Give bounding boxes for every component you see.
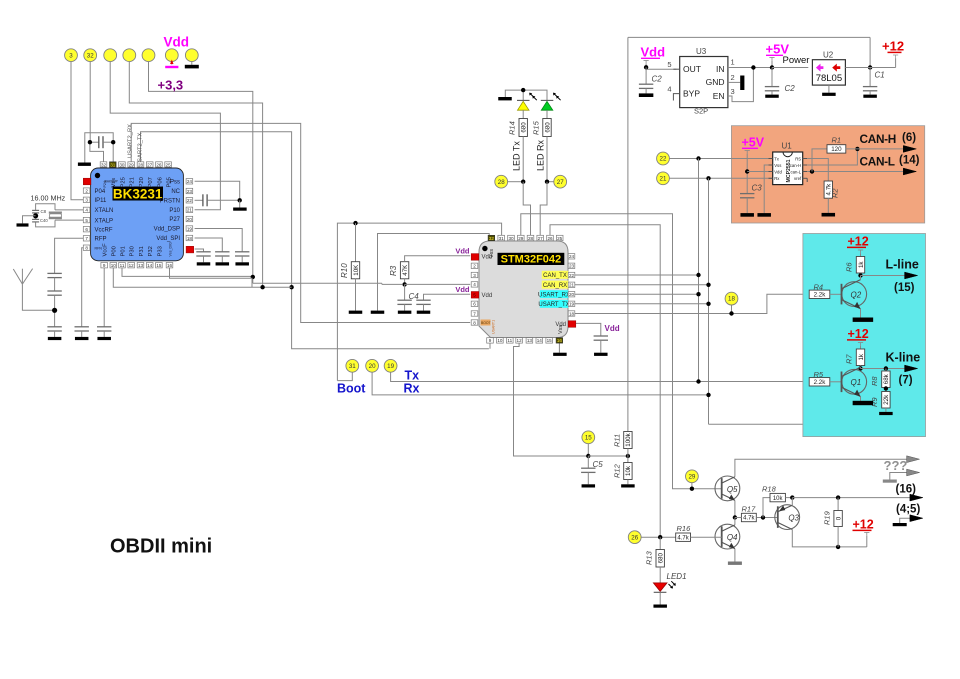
svg-text:C8: C8: [41, 209, 47, 214]
svg-text:C40: C40: [40, 218, 48, 223]
wire cap2 to junction: [54, 295, 56, 327]
STM pin 9 box (bottom): [487, 338, 494, 343]
STM pin 27 box (top): [537, 235, 544, 240]
svg-text:7: 7: [85, 236, 88, 241]
BK pin 12 box (bottom): [128, 263, 135, 268]
svg-text:K-line: K-line: [886, 351, 921, 365]
CAN-L arrow head: [903, 168, 916, 175]
LED Tx (yellow) symbol: [517, 99, 530, 101]
connector pin circle (unlabeled a): [104, 49, 117, 62]
L-line arrow wire: [861, 275, 905, 277]
svg-text:P31: P31: [139, 246, 145, 256]
wire BOOT0 net: Boot circle up and right to STM pin 31: [337, 223, 501, 381]
svg-text:C3: C3: [752, 184, 763, 193]
wire R1 to CAN-H arrow: [846, 148, 904, 150]
wire R5 to Q1 base: [830, 381, 842, 383]
svg-text:31: 31: [349, 363, 356, 370]
svg-text:(6): (6): [902, 132, 916, 144]
wire Rx circle to Rx rail: [372, 372, 708, 395]
wire STM pin21 CAN_RX to Rx net: [575, 284, 709, 286]
ground bar C5: [582, 484, 596, 487]
Rx net vertical (c21/CAN_RX/Rx/K-divider): [708, 178, 710, 424]
wire STM pin22 CAN_TX to Tx net: [575, 274, 699, 276]
svg-text:4: 4: [473, 282, 476, 287]
svg-text:100k: 100k: [625, 432, 632, 446]
connector circle 26: [628, 531, 641, 544]
junction dot R10 top: [353, 221, 357, 225]
svg-text:C5: C5: [593, 460, 604, 469]
svg-text:32: 32: [101, 162, 107, 167]
svg-text:2: 2: [731, 73, 735, 82]
wire STM pin26 to circle26 net (long): [550, 225, 660, 538]
svg-text:XTALP: XTALP: [95, 218, 114, 224]
wire: connector pin 32 down to crystal-loop left dot: [89, 62, 91, 143]
wire circle26 junction, R16: [641, 536, 676, 538]
svg-text:???: ???: [884, 458, 908, 473]
wire LED tops to ground: [505, 90, 547, 100]
svg-text:4.7k: 4.7k: [743, 516, 755, 522]
wire: connector circle 3 branch to BK P10 pin 21: [110, 62, 220, 210]
wire LED Tx to R14: [522, 110, 524, 118]
power flag +12 bottom: [864, 532, 869, 534]
ground bar LED block: [498, 97, 512, 100]
svg-text:P20: P20: [139, 177, 145, 187]
svg-text:10: 10: [111, 263, 117, 268]
U2 magenta arrow icon: [816, 64, 824, 72]
K-line arrow head: [905, 365, 918, 372]
??? arrow head (gray): [907, 456, 920, 463]
svg-text:19: 19: [569, 302, 575, 307]
svg-text:120: 120: [831, 146, 842, 153]
connector circle 29: [686, 470, 699, 483]
cap C1: [869, 68, 871, 87]
svg-text:680: 680: [544, 122, 551, 133]
svg-text:LED1: LED1: [667, 572, 687, 581]
wire LED1 to ground: [659, 592, 661, 604]
svg-text:Q3: Q3: [788, 514, 799, 523]
svg-text:BOOT: BOOT: [481, 321, 491, 325]
svg-text:4.7k: 4.7k: [677, 535, 689, 541]
STM pin 12 box (bottom): [516, 338, 523, 343]
svg-text:CAN-L: CAN-L: [860, 155, 895, 169]
crystal circuit loop: [36, 204, 55, 211]
BK pin 7 box: [83, 236, 90, 241]
transistor Q5: [715, 476, 740, 501]
connector circle 28: [495, 175, 508, 188]
svg-text:29: 29: [129, 162, 135, 167]
BK pin 24 box: [186, 179, 193, 184]
svg-text:P01: P01: [120, 246, 126, 256]
wire STM pin19 USART_TX to Rx vertical: [575, 303, 709, 305]
cap on PRSTN: [202, 194, 204, 206]
svg-text:29: 29: [518, 236, 524, 241]
ground bar antenna: [48, 337, 62, 340]
resistor R19 0: [837, 498, 839, 511]
cap BK pin8: [75, 326, 89, 328]
connector pin circle (unlabeled c): [142, 49, 155, 62]
svg-text:R10: R10: [340, 263, 349, 278]
BK3231 pin-1 indicator dot: [95, 173, 100, 178]
wire crystal cap junction to ground: [23, 216, 36, 224]
wire: Vss loop top over cap: [85, 133, 113, 163]
svg-text:32: 32: [87, 52, 94, 59]
svg-text:MCP2551: MCP2551: [786, 159, 792, 182]
svg-text:3: 3: [473, 273, 476, 278]
svg-text:CAN_RX: CAN_RX: [543, 283, 567, 289]
wire STM pin16 to ground: [558, 343, 560, 353]
svg-text:R3: R3: [389, 265, 398, 276]
BK pin 5 box: [83, 217, 90, 222]
svg-text:BYP: BYP: [683, 89, 700, 99]
cap C3: [740, 193, 754, 195]
wire Q2 emitter to ground: [860, 309, 862, 318]
svg-text:28: 28: [528, 236, 534, 241]
svg-text:R2: R2: [831, 188, 840, 198]
L-line arrow head: [905, 272, 918, 279]
STM pin 2 box: [471, 263, 478, 268]
U3 pin 3 EN loop to IN: [728, 68, 754, 102]
svg-text:10K: 10K: [353, 264, 360, 276]
svg-text:Vdd: Vdd: [482, 255, 493, 261]
STM pin 19 box: [568, 301, 575, 306]
svg-text:Rx: Rx: [774, 176, 780, 181]
connector pin circle (unlabeled b): [123, 49, 136, 62]
svg-text:P00: P00: [112, 246, 118, 256]
(16) arrow head: [910, 494, 923, 501]
svg-text:5: 5: [473, 292, 476, 297]
U2 78L05 box: [812, 60, 845, 85]
svg-text:26: 26: [631, 534, 638, 541]
ground bar STM pin16: [553, 353, 567, 356]
transistor Q2: [842, 282, 867, 307]
svg-text:S2P: S2P: [694, 107, 708, 116]
svg-text:22: 22: [660, 156, 667, 163]
wire R10 to ground: [355, 279, 357, 311]
wire: connector circle 5 down to NRST/P01 net: [149, 62, 253, 284]
wire c29 stem: [691, 483, 693, 489]
wire USART2_TX from BK pin 28 to STM pin 9 net: [141, 132, 489, 349]
wire IN line to U2: [772, 67, 808, 69]
svg-text:R14: R14: [508, 121, 517, 135]
wire BK pin10 (P00) net: [113, 268, 291, 287]
svg-text:+12: +12: [848, 327, 869, 341]
transistor Q3 (PNP): [775, 505, 800, 530]
BK pin 1 (red): [83, 178, 91, 185]
STM orange tag pin8: [481, 320, 491, 326]
svg-text:29: 29: [688, 473, 695, 480]
svg-text:13: 13: [138, 263, 144, 268]
wire U2 out to C1/+12 node: [845, 67, 895, 69]
gray ground bar ???: [883, 480, 897, 483]
ground bar BK pin9 cap: [97, 337, 111, 340]
svg-text:vref: vref: [794, 176, 802, 181]
svg-text:Q2: Q2: [851, 291, 862, 300]
ground bar STM VSS: [371, 311, 385, 314]
ground bar (4;5): [893, 523, 907, 526]
svg-text:2.2k: 2.2k: [814, 379, 827, 386]
STM pin 32 box (dark): [488, 235, 495, 240]
svg-text:24: 24: [187, 179, 193, 184]
ground bar C1: [863, 95, 877, 98]
svg-text:EN: EN: [713, 91, 725, 101]
STM pin 15 box (bottom): [546, 338, 553, 343]
BK pin 3 box: [83, 197, 90, 202]
ground bar cap18: [216, 262, 230, 265]
svg-text:Vdd_SPI: Vdd_SPI: [156, 236, 180, 242]
BK3231 chip body: [91, 168, 184, 261]
BK pin 2 box: [83, 188, 90, 193]
ground bar cap17: [197, 262, 211, 265]
BK pin 11 box (bottom): [119, 263, 126, 268]
power flag Vdd U3: [644, 60, 649, 62]
svg-text:U1: U1: [782, 142, 793, 151]
svg-text:30: 30: [508, 236, 514, 241]
ground bar pin5 cap: [417, 311, 431, 314]
svg-text:R5: R5: [814, 370, 824, 379]
svg-text:31: 31: [110, 162, 116, 167]
svg-text:Vss: Vss: [111, 178, 117, 188]
resistor R7 1k: [860, 346, 862, 349]
wire U1 can-L to CAN-L arrow: [807, 171, 904, 173]
svg-text:GND: GND: [706, 77, 725, 87]
wire junction to R11 node: [588, 455, 628, 457]
wire BK pin 8 to cap: [82, 248, 87, 327]
svg-text:15: 15: [156, 263, 162, 268]
wire circle22 to U1 Tx: [669, 158, 772, 160]
BK pin 27 box (top): [146, 162, 153, 167]
wire circle21 to U1 Rx: [669, 177, 772, 179]
wire cap3 to ground: [54, 331, 56, 337]
STM pin 4 box: [471, 282, 478, 287]
U3 pin 2 GND stub to bar: [728, 81, 740, 83]
junction dot EN/IN/+12 vert: [868, 65, 872, 69]
power flag below Vdd circle: [171, 62, 173, 65]
ground bar below last connector circle: [191, 62, 193, 65]
U3 pin 4 stub: [673, 94, 679, 101]
svg-text:OUT: OUT: [683, 64, 701, 74]
ground bar R10: [349, 311, 363, 314]
svg-text:15: 15: [547, 338, 553, 343]
wire: connector circle 4 down to P00 net: [129, 62, 262, 288]
wire BK pin 7 RFP to antenna cap chain: [55, 238, 87, 273]
wire Boot circle to BOOT0 vertical: [337, 372, 352, 380]
svg-text:8: 8: [85, 246, 88, 251]
svg-text:Rx: Rx: [404, 382, 420, 396]
BK pin 10 box (bottom): [110, 263, 117, 268]
svg-text:20: 20: [187, 217, 193, 222]
ground bar STM Vdd cap: [594, 353, 608, 356]
transistor Q4: [715, 524, 740, 549]
svg-text:6: 6: [473, 302, 476, 307]
svg-text:27: 27: [538, 236, 544, 241]
power flag +12 K: [858, 342, 863, 344]
svg-text:CAN-H: CAN-H: [860, 132, 897, 146]
svg-text:10: 10: [497, 338, 503, 343]
decoupling cap BK pin17: [196, 251, 210, 253]
wire Q5 emitter to R17 node: [734, 500, 736, 517]
resistor R5 2.2k: [809, 378, 830, 386]
svg-text:0: 0: [835, 516, 842, 520]
svg-text:1: 1: [731, 58, 735, 67]
svg-text:16: 16: [167, 263, 173, 268]
wire U1 can-H up to R1 right node: [807, 149, 857, 165]
ground bar BK pin8 cap: [75, 337, 89, 340]
svg-text:LED Rx: LED Rx: [535, 139, 545, 171]
svg-text:P32: P32: [148, 246, 154, 256]
svg-text:32: 32: [489, 236, 495, 241]
STM CAN_RX tag: [542, 281, 569, 289]
svg-text:+12: +12: [848, 235, 869, 249]
wire Q5 collector to ??? line: [735, 459, 908, 477]
svg-text:Vdd: Vdd: [164, 35, 190, 50]
svg-text:19: 19: [187, 226, 193, 231]
svg-text:21: 21: [569, 283, 575, 288]
resistor R8 68k: [885, 369, 887, 372]
svg-text:18: 18: [187, 236, 193, 241]
junction dot antenna: [52, 308, 57, 313]
wire Vdd flag to U3 OUT: [646, 64, 676, 69]
ground bar Q2 (thick): [853, 318, 874, 322]
STM pin 3 box: [471, 272, 478, 277]
STM pin 16 box (dark): [556, 338, 563, 343]
gray ground bar Q4: [728, 562, 742, 565]
resistor R13 680: [659, 537, 661, 549]
svg-text:USART2_TX: USART2_TX: [137, 132, 143, 166]
connector circle 19 Tx: [384, 359, 397, 372]
svg-text:14: 14: [537, 338, 543, 343]
svg-text:P04: P04: [95, 189, 106, 195]
svg-text:P24: P24: [103, 181, 107, 187]
resistor R12 10k: [627, 456, 629, 463]
CAN-H arrow head: [903, 146, 916, 153]
STM CAN_TX tag: [542, 271, 569, 279]
svg-text:21: 21: [660, 175, 667, 182]
svg-text:(14): (14): [899, 155, 920, 167]
svg-text:12: 12: [517, 338, 523, 343]
STM pin-1 indicator dot: [482, 246, 487, 251]
svg-text:USART_RX: USART_RX: [538, 293, 570, 299]
STM pin 14 box (bottom): [536, 338, 543, 343]
svg-text:28: 28: [138, 162, 144, 167]
svg-text:NC: NC: [171, 189, 180, 195]
STM pin 23 box: [568, 263, 575, 268]
wire cap to junction: [208, 199, 240, 201]
BK pin 18 box: [186, 235, 193, 240]
wire +5V to U1 Vdd and C3: [746, 154, 748, 194]
svg-text:Vdd: Vdd: [455, 285, 470, 294]
(16) output line: [792, 497, 911, 499]
STM pin 6 box: [471, 301, 478, 306]
antenna symbol: [13, 269, 22, 284]
BK pin 22 box: [186, 198, 193, 203]
svg-text:(4;5): (4;5): [896, 504, 920, 516]
STM pin 31 box (top): [498, 235, 505, 240]
svg-text:1k: 1k: [858, 353, 865, 360]
STM pin 11 box (bottom): [507, 338, 514, 343]
wire Tx circle to Tx rail: [391, 372, 810, 381]
ground bar R2: [822, 213, 836, 217]
wire BK pin16 jog to P00 net: [170, 268, 253, 287]
cap antenna chain 3: [47, 326, 61, 328]
STM pin 30 box (top): [508, 235, 515, 240]
wire R14 to circle 28 dot: [522, 137, 524, 182]
resistor R9 22k: [882, 392, 890, 409]
STM32F042 part label: [498, 253, 565, 265]
svg-text:3: 3: [731, 87, 735, 96]
U1 pin stubs: [769, 158, 773, 160]
svg-text:11: 11: [120, 263, 125, 268]
svg-text:23: 23: [569, 264, 575, 269]
resistor R15 680: [543, 119, 551, 137]
resistor R3 47K pullup: [400, 262, 408, 279]
power flag +12: [893, 54, 898, 56]
svg-text:+5V: +5V: [742, 136, 765, 150]
ground bar C2 right: [765, 95, 779, 98]
svg-text:C2: C2: [785, 84, 796, 93]
wire STM VSS pin32 to ground: [378, 234, 490, 311]
svg-text:P06: P06: [157, 177, 163, 187]
svg-text:CAN_TX: CAN_TX: [543, 273, 567, 279]
svg-text:Vss_DIG: Vss_DIG: [169, 242, 173, 257]
power flag +5V: [769, 57, 774, 59]
wire R13 to LED1: [659, 567, 661, 583]
STM pin 7 box: [471, 311, 478, 316]
(4;5) stub arrow: [900, 518, 911, 523]
svg-text:BK3231: BK3231: [113, 186, 163, 201]
svg-text:R13: R13: [645, 550, 654, 565]
wire STM pin20 USART_RX to Tx vertical: [575, 293, 699, 295]
resistor R17 4.7k: [741, 513, 756, 521]
ground bar C3: [740, 213, 754, 217]
connector pin circle 3: [65, 49, 78, 62]
wire Q4 collector to R17 node: [734, 518, 736, 525]
svg-text:23: 23: [187, 189, 193, 194]
wire BK PRSTN to cap: [195, 199, 203, 201]
decoupling cap STM Vdd: [594, 335, 608, 337]
svg-text:Vdd: Vdd: [482, 293, 493, 299]
svg-text:R12: R12: [613, 463, 622, 478]
svg-text:R8: R8: [870, 376, 879, 386]
resistor R14 680: [519, 119, 527, 137]
wire R4 to Q2 base: [830, 293, 842, 295]
wire BK pin11 (P01) to R3/NRST net: [122, 268, 253, 276]
connector circle 31 Boot: [346, 359, 359, 372]
svg-text:IP11: IP11: [95, 198, 108, 204]
svg-text:2: 2: [473, 264, 476, 269]
STM pin 22 box: [568, 272, 575, 277]
svg-text:26: 26: [156, 162, 162, 167]
svg-text:USART_TX: USART_TX: [538, 302, 569, 308]
svg-text:26: 26: [547, 236, 553, 241]
wire Q3 emitter up to (16) line: [791, 498, 793, 506]
U1 MCP2551 box: [773, 152, 803, 185]
svg-text:RS: RS: [795, 156, 801, 161]
svg-text:P25: P25: [120, 177, 126, 187]
connector pin circle 32: [84, 49, 97, 62]
svg-text:PRSTN: PRSTN: [160, 199, 180, 205]
ground bar U1 Vss: [757, 213, 771, 217]
BK pin 19 box: [186, 226, 193, 231]
svg-text:78L05: 78L05: [816, 73, 842, 84]
wire: connector pin 3 to BK pin 3 (IP11): [71, 62, 87, 200]
svg-text:R6: R6: [845, 262, 854, 272]
resistor R16 4.7k: [676, 533, 691, 541]
svg-text:Vss: Vss: [774, 163, 781, 168]
STM pin 8 box: [471, 320, 478, 325]
svg-text:20: 20: [369, 363, 376, 370]
CAN section salmon box: [731, 126, 924, 223]
svg-text:R17: R17: [742, 505, 757, 514]
